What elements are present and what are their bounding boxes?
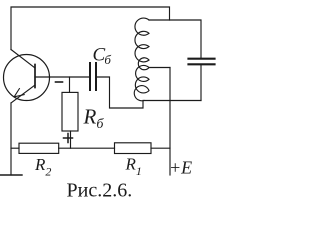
transistor VT emitter arrow (14, 89, 24, 97)
capacitor C6 right plate (95, 63, 97, 90)
transistor VT base bar (34, 65, 36, 88)
transistor VT collector lead (11, 50, 35, 69)
svg-text:+E: +E (169, 157, 192, 177)
wire inductor tap (149, 67, 170, 69)
wire tank top (149, 20, 201, 58)
resistor R6 body (62, 92, 78, 131)
wire base to C6 (50, 76, 90, 78)
transistor VT base lead (35, 76, 50, 78)
resistor R2 body (19, 143, 59, 153)
transistor VT emitter lead (11, 85, 35, 103)
wire collector to top rail (11, 7, 170, 50)
svg-text:Rб: Rб (83, 105, 105, 133)
wire left rail to R2 (11, 147, 19, 149)
svg-text:R1: R1 (125, 155, 142, 179)
transistor VT circle (4, 55, 50, 101)
wire tank bottom (144, 100, 202, 102)
capacitor C top plate (189, 58, 215, 60)
inductor L winding (134, 18, 149, 101)
polarity plus sign at R6 bottom (64, 134, 73, 143)
capacitor C bottom plate (189, 63, 215, 65)
wire R2 to R1 (59, 147, 115, 149)
wire R1 to +E rail (151, 147, 170, 149)
svg-text:Рис.2.6.: Рис.2.6. (67, 180, 133, 202)
resistor R1 body (115, 143, 152, 154)
svg-text:R2: R2 (34, 155, 51, 179)
wire C6 to tank bottom (97, 77, 143, 108)
terminal bar bottom left (0, 174, 22, 176)
wire capacitor bottom lead (200, 65, 202, 100)
wire +E rail (169, 68, 171, 176)
wire R6 bottom lead (70, 131, 72, 148)
polarity minus sign at base (56, 81, 63, 83)
svg-text:Сб: Сб (93, 45, 112, 68)
wire emitter down (10, 103, 12, 175)
wire base drop to R6 (69, 77, 71, 92)
capacitor C6 left plate (89, 63, 91, 90)
